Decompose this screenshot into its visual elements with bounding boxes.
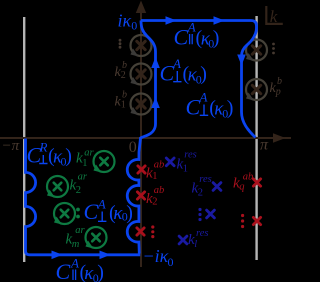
svg-text:ab: ab xyxy=(154,185,165,196)
svg-text:1: 1 xyxy=(121,100,126,111)
svg-text:p: p xyxy=(275,87,281,98)
svg-text:A: A xyxy=(199,90,208,105)
svg-text:m: m xyxy=(72,239,80,250)
svg-text:2: 2 xyxy=(121,70,126,81)
svg-text:ab: ab xyxy=(243,172,254,183)
svg-text:A: A xyxy=(97,197,106,212)
svg-text:res: res xyxy=(199,174,211,185)
svg-text:q: q xyxy=(239,182,244,193)
svg-text:): ) xyxy=(227,97,234,119)
svg-text:b: b xyxy=(277,76,282,87)
svg-text:A: A xyxy=(172,56,181,71)
svg-text:l: l xyxy=(194,239,197,250)
svg-text:π: π xyxy=(260,136,269,153)
svg-text:): ) xyxy=(65,145,72,167)
svg-text:2: 2 xyxy=(152,197,157,208)
svg-text:iκ: iκ xyxy=(118,11,132,31)
svg-text:ab: ab xyxy=(154,160,165,171)
svg-text:res: res xyxy=(196,228,208,239)
svg-text:res: res xyxy=(184,150,196,161)
svg-text:): ) xyxy=(97,262,104,282)
svg-text:C: C xyxy=(84,199,99,224)
svg-text:ar: ar xyxy=(78,172,88,183)
svg-text:b: b xyxy=(122,60,127,71)
svg-text:): ) xyxy=(200,63,207,85)
svg-text:A: A xyxy=(70,256,79,271)
svg-text:): ) xyxy=(126,202,133,224)
svg-text:A: A xyxy=(187,20,196,35)
svg-text:2: 2 xyxy=(198,188,203,199)
svg-text:2: 2 xyxy=(76,185,81,196)
svg-text:1: 1 xyxy=(152,171,157,182)
svg-text:R: R xyxy=(39,140,48,155)
svg-text:C: C xyxy=(56,259,71,282)
svg-text:ar: ar xyxy=(75,225,85,236)
svg-text:0: 0 xyxy=(168,255,174,269)
svg-text:1: 1 xyxy=(82,158,87,169)
svg-text:0: 0 xyxy=(129,139,137,156)
svg-text:0: 0 xyxy=(131,19,137,33)
svg-text:1: 1 xyxy=(183,164,188,175)
svg-text:C: C xyxy=(186,95,201,120)
svg-text:k: k xyxy=(270,7,278,26)
svg-text:): ) xyxy=(213,27,220,49)
svg-text:−iκ: −iκ xyxy=(143,246,169,266)
svg-text:C: C xyxy=(174,25,189,50)
svg-text:−π: −π xyxy=(2,138,20,154)
svg-text:ar: ar xyxy=(84,148,94,159)
svg-text:b: b xyxy=(122,90,127,101)
